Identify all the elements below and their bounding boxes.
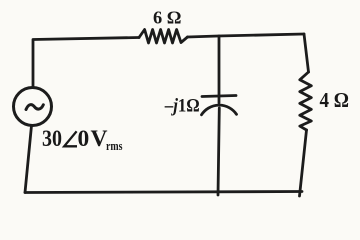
svg-text:6 Ω: 6 Ω	[153, 7, 182, 27]
svg-text:4 Ω: 4 Ω	[320, 88, 350, 112]
svg-text:V: V	[91, 126, 108, 152]
svg-text:0: 0	[78, 126, 90, 152]
svg-text:rms: rms	[106, 138, 123, 153]
svg-text:–j1Ω: –j1Ω	[164, 95, 200, 116]
svg-text:30: 30	[42, 126, 62, 152]
